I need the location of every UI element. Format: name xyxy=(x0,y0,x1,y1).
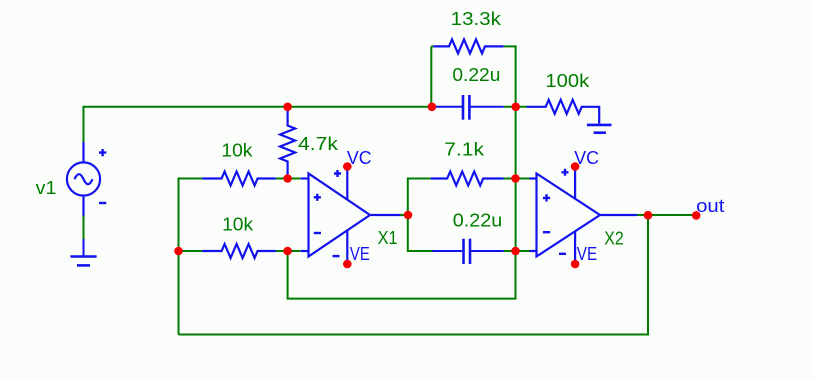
capacitor C1 0.22u top xyxy=(436,95,504,120)
svg-text:10k: 10k xyxy=(221,140,253,160)
wire 10k bottom left lead-in xyxy=(179,250,203,252)
wire 10k top right to X1 xyxy=(276,178,301,180)
wire 13.3k loop left vertical xyxy=(430,46,432,106)
ground at 100k xyxy=(587,125,612,133)
wire v1 to ground xyxy=(83,216,85,240)
wire 7.1k right to node xyxy=(504,178,516,180)
node X1 output xyxy=(404,211,413,220)
node top left of C1 xyxy=(428,103,437,112)
svg-text:7.1k: 7.1k xyxy=(444,140,485,160)
svg-text:13.3k: 13.3k xyxy=(451,9,502,29)
wire 13.3k right stub xyxy=(504,45,516,47)
resistor R5 100k xyxy=(527,100,600,124)
wire right rail vertical xyxy=(515,45,517,252)
svg-text:0.22u: 0.22u xyxy=(453,211,503,231)
wire X2 output to out xyxy=(637,214,696,216)
op-amp X2 xyxy=(530,167,638,264)
svg-text:100k: 100k xyxy=(545,71,590,91)
wire 10k top left lead-in xyxy=(179,178,203,180)
node VC X2 xyxy=(571,162,580,171)
wire left rail vertical xyxy=(178,178,180,335)
node VE X1 xyxy=(343,260,352,269)
wire X1 output green stub xyxy=(400,214,408,216)
op-amp X1 xyxy=(301,167,403,264)
node VC X1 xyxy=(343,162,352,171)
node X2 minus input xyxy=(511,247,520,256)
wire X1 output to bracket xyxy=(403,214,408,216)
wire top horizontal from v1 to node xyxy=(84,106,437,108)
resistor R4 13.3k xyxy=(434,39,504,53)
node left rail bottom xyxy=(174,247,183,256)
wire cap C2 right to node xyxy=(504,250,516,252)
wire inner feedback loop xyxy=(288,251,516,299)
svg-text:X1: X1 xyxy=(378,228,398,248)
resistor R3 4.7k vertical xyxy=(280,108,295,178)
svg-text:0.22u: 0.22u xyxy=(452,65,500,85)
wire bracket to cap C2 xyxy=(408,250,433,252)
node X2 output xyxy=(644,211,653,220)
node X1 plus input xyxy=(283,174,292,183)
wire bracket to 7.1k xyxy=(408,178,431,180)
node top at 4.7k xyxy=(283,103,292,112)
svg-text:VE: VE xyxy=(577,244,597,264)
resistor R1 10k top xyxy=(202,172,275,186)
wire node to X2 plus input xyxy=(516,178,530,180)
wire bracket vertical at X1 output xyxy=(407,178,409,253)
ground under v1 xyxy=(70,238,96,265)
wire top horizontal node to 100k xyxy=(504,106,527,108)
svg-text:out: out xyxy=(696,196,724,216)
node X1 minus input xyxy=(283,247,292,256)
resistor R6 7.1k xyxy=(431,172,504,186)
node out terminal xyxy=(692,211,701,220)
junction node dots xyxy=(174,103,700,269)
node top right of C1 xyxy=(511,103,520,112)
wire 10k bottom right to X1 xyxy=(276,250,301,252)
svg-text:X2: X2 xyxy=(604,229,624,249)
node VE X2 xyxy=(571,260,580,269)
wire outer feedback loop xyxy=(179,215,649,335)
capacitor C2 0.22u bottom xyxy=(433,239,504,264)
svg-text:4.7k: 4.7k xyxy=(298,134,339,154)
svg-text:VE: VE xyxy=(350,244,370,264)
node X2 plus input xyxy=(511,174,520,183)
wire v1 top vertical xyxy=(83,106,85,143)
wire 13.3k left stub xyxy=(431,45,433,47)
voltage source v1 xyxy=(67,142,106,217)
wire node to X2 minus input xyxy=(516,250,530,252)
svg-text:v1: v1 xyxy=(36,178,57,198)
resistor R2 10k bottom xyxy=(202,244,275,258)
svg-text:10k: 10k xyxy=(222,214,254,234)
